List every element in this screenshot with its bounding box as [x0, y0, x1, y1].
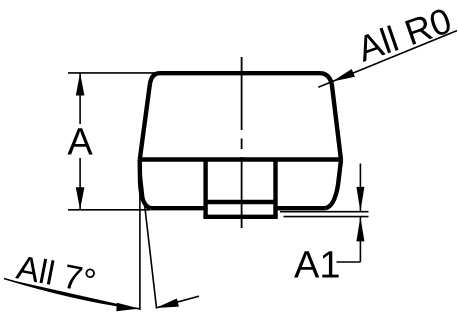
body mid line (seat line) — [140, 157, 341, 161]
body outline: top-left corner — [150, 73, 159, 84]
angle line vertical (7 deg reference) — [139, 164, 141, 310]
dimension A1 arrow up — [356, 217, 364, 242]
body outline: bottom edge right segment — [276, 206, 326, 210]
svg-text:A: A — [67, 122, 93, 164]
body outline: left side (7 deg) — [140, 84, 150, 160]
dimension A1 elbow leader — [337, 261, 361, 263]
dimension A1 extension line lower — [284, 216, 369, 218]
dimension A1 arrow down — [356, 187, 364, 212]
All R0 leader line — [318, 31, 457, 88]
body outline: top edge — [159, 71, 322, 75]
centerline (dash-dot vertical) — [241, 57, 243, 228]
dimension A line lower segment — [79, 158, 81, 210]
dimension A1 extension line upper — [280, 211, 369, 213]
tab right vertical — [273, 160, 277, 217]
dimension A arrow up — [76, 73, 85, 96]
dimension A extension line bottom — [68, 209, 151, 211]
body outline: bottom edge left segment — [151, 206, 206, 210]
All R0 arrowhead — [332, 69, 355, 82]
All 7 right arrow — [156, 299, 179, 309]
body outline: top-right corner — [322, 73, 332, 84]
angle line slanted 7 deg — [140, 164, 157, 308]
body outline: lower-left side and corner — [140, 160, 151, 208]
tab bottom edge — [203, 215, 277, 219]
svg-text:A1: A1 — [294, 245, 340, 287]
All 7 left arrow — [116, 303, 139, 311]
body outline: right side (7 deg) — [332, 84, 341, 160]
All 7 arc dimension line — [4, 279, 139, 309]
All 7 right tail line — [156, 296, 199, 308]
dimension A line upper segment — [79, 73, 81, 124]
tab left vertical — [203, 160, 207, 217]
dimension A1 line upper segment — [359, 164, 361, 212]
dimension A1 line lower segment — [359, 217, 361, 262]
dimension A extension line top — [68, 72, 160, 74]
tab internal line — [206, 200, 276, 204]
body outline: lower-right side and corner — [325, 160, 341, 208]
dimension A arrow down — [76, 187, 85, 210]
